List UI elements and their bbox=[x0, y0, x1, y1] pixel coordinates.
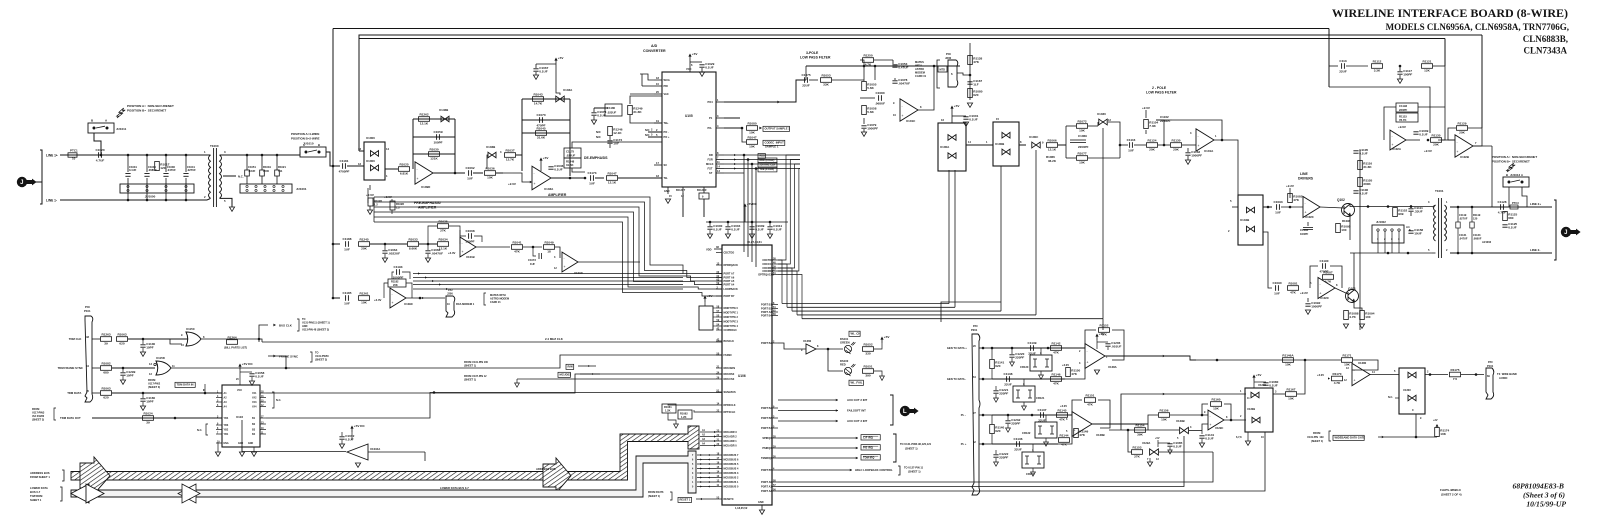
capacitor C1162 bbox=[1145, 130, 1147, 134]
svg-text:U104B: U104B bbox=[1240, 218, 1250, 222]
svg-text:N/C: N/C bbox=[596, 135, 601, 139]
MTD box bbox=[938, 66, 947, 72]
svg-text:22UF: 22UF bbox=[1339, 69, 1347, 73]
svg-text:+5V: +5V bbox=[707, 294, 714, 298]
label TDM DATA IN bbox=[175, 382, 195, 387]
svg-text:U103A: U103A bbox=[563, 88, 573, 92]
pin 5 A3 U116 bbox=[216, 401, 222, 403]
address bus arrow left bbox=[80, 457, 110, 494]
svg-text:CLN7343A: CLN7343A bbox=[1523, 46, 1567, 56]
capacitor C1117 bbox=[1397, 71, 1402, 73]
svg-text:U106: U106 bbox=[738, 374, 746, 378]
power U130B bbox=[1253, 377, 1255, 381]
svg-text:15K: 15K bbox=[1213, 407, 1219, 411]
pin 66 PORT B4 U106 bbox=[772, 315, 778, 317]
label RESET bbox=[678, 497, 692, 502]
svg-text:0.1UF: 0.1UF bbox=[713, 228, 722, 232]
ground U105 bbox=[665, 199, 670, 203]
wire r1061 gnd bbox=[668, 413, 676, 424]
svg-text:MCUADR 0: MCUADR 0 bbox=[724, 445, 738, 448]
component C1051 bbox=[246, 155, 248, 170]
wire bundle staircase bbox=[374, 197, 722, 274]
svg-text:10K: 10K bbox=[1285, 363, 1291, 367]
resistor R1144 bbox=[1059, 438, 1070, 443]
wire PO- out bbox=[724, 127, 742, 129]
svg-text:JU1013: JU1013 bbox=[1510, 173, 1521, 177]
svg-text:(SHEET 1): (SHEET 1) bbox=[908, 470, 921, 474]
svg-text:0.1UF: 0.1UF bbox=[969, 118, 978, 122]
svg-text:TX WIDE BAND: TX WIDE BAND bbox=[1497, 372, 1517, 376]
svg-text:47K: 47K bbox=[1053, 351, 1059, 355]
net C/F IRQ bbox=[778, 437, 858, 439]
svg-text:U130C: U130C bbox=[1403, 388, 1411, 392]
svg-text:7.5: 7.5 bbox=[1453, 377, 1458, 381]
label WIDEBAND DATA GATE bbox=[1333, 435, 1364, 440]
pin 1 PO4 U105 bbox=[716, 101, 724, 103]
resistor R1028 bbox=[368, 198, 373, 206]
switch bbox=[1408, 372, 1416, 378]
svg-text:-: - bbox=[462, 241, 463, 245]
wire to U105 bbox=[618, 177, 662, 179]
wire y394 from U128B bbox=[1121, 394, 1246, 430]
diode bridge CR133 bbox=[1022, 452, 1044, 468]
svg-text:ASTRO: ASTRO bbox=[915, 67, 924, 71]
svg-text:POSITION B= SECURENET: POSITION B= SECURENET bbox=[1492, 160, 1530, 164]
ground U116 a bbox=[239, 452, 244, 456]
svg-text:1500: 1500 bbox=[263, 169, 269, 173]
svg-text:10K: 10K bbox=[1161, 418, 1167, 422]
svg-text:1UF: 1UF bbox=[589, 181, 595, 185]
off-sheet connector J bbox=[1561, 227, 1571, 237]
capacitor C1074 bbox=[591, 112, 596, 114]
svg-text:TO U127-PIN 11: TO U127-PIN 11 bbox=[904, 466, 924, 470]
svg-text:0.1UF: 0.1UF bbox=[129, 168, 137, 172]
connector P/O P101 right bbox=[1486, 368, 1494, 399]
feedback R1152 bbox=[1085, 330, 1096, 348]
address bus pin arrows bbox=[700, 431, 716, 433]
capacitor C1185 bbox=[345, 295, 347, 301]
capacitor C1070 bbox=[539, 117, 541, 123]
capacitor C1128 bbox=[1500, 204, 1502, 210]
wire long y360 bbox=[1105, 355, 1121, 357]
capacitor C1193 box bbox=[1396, 103, 1418, 112]
wire DPTXCLK loop bbox=[694, 410, 716, 412]
svg-text:FRAME SYNC: FRAME SYNC bbox=[279, 355, 299, 359]
svg-text:PDI: PDI bbox=[664, 84, 669, 88]
capacitor C1080 bbox=[878, 95, 880, 101]
ground C1009 bbox=[749, 234, 754, 238]
jumper JU1013 bbox=[1503, 177, 1529, 187]
resistor R1152 bbox=[1099, 328, 1110, 333]
wire fan drop 2 bbox=[747, 160, 749, 258]
wire R1156 branch bbox=[1148, 415, 1158, 430]
connector P/O P201 bbox=[972, 334, 980, 495]
wire amp out bbox=[551, 177, 585, 179]
svg-text:MODTYPE 0: MODTYPE 0 bbox=[724, 307, 739, 310]
pin 50 FSXNC U106 bbox=[716, 354, 722, 356]
capacitor C1034 bbox=[146, 155, 148, 172]
pin 8 YB2 U116 bbox=[216, 429, 222, 431]
svg-text:0.1UF: 0.1UF bbox=[1359, 192, 1368, 196]
capacitor C1036 bbox=[165, 155, 167, 172]
capacitor C1080 bbox=[1263, 382, 1268, 384]
svg-text:PO -: PO - bbox=[664, 130, 669, 134]
wire opamp out bbox=[918, 66, 934, 110]
svg-text:620: 620 bbox=[119, 342, 124, 346]
svg-text:J200: J200 bbox=[447, 292, 453, 296]
svg-text:CODEC INPUT: CODEC INPUT bbox=[765, 141, 785, 145]
resistor R1024 bbox=[143, 416, 154, 421]
op-amp U102B bbox=[1455, 135, 1473, 157]
wire U128B out bbox=[1109, 429, 1179, 431]
net P/S IRQ bbox=[778, 447, 858, 449]
svg-text:-: - bbox=[417, 167, 418, 171]
switch U103B bbox=[488, 152, 496, 158]
svg-text:27K: 27K bbox=[1134, 455, 1140, 459]
selection cursor arrow bbox=[117, 108, 126, 118]
svg-text:47K: 47K bbox=[1079, 433, 1085, 437]
svg-text:MODELS CLN6956A, CLN6958A, TRN: MODELS CLN6956A, CLN6958A, TRN7706G, bbox=[1386, 22, 1569, 32]
component R1119 bbox=[1471, 207, 1473, 222]
capacitor C1299 bbox=[120, 372, 125, 374]
svg-text:YB3: YB3 bbox=[224, 424, 229, 427]
svg-text:39: 39 bbox=[104, 342, 108, 346]
svg-text:.0047UF: .0047UF bbox=[431, 252, 443, 256]
resistor R1175 bbox=[1450, 372, 1461, 377]
or-gate U115D bbox=[156, 361, 171, 375]
svg-text:20K: 20K bbox=[393, 283, 398, 287]
svg-text:R1047: R1047 bbox=[747, 136, 756, 140]
svg-text:PORT B6: PORT B6 bbox=[761, 417, 772, 420]
svg-text:R1154: R1154 bbox=[1136, 424, 1145, 428]
svg-text:10K: 10K bbox=[1079, 129, 1085, 133]
svg-text:1UF: 1UF bbox=[344, 247, 350, 251]
switch bbox=[1002, 132, 1010, 138]
svg-text:LOWER DATA: LOWER DATA bbox=[30, 486, 48, 490]
svg-text:BCLK R: BCLK R bbox=[697, 189, 707, 192]
svg-text:-: - bbox=[1087, 349, 1088, 353]
svg-text:120: 120 bbox=[1473, 217, 1478, 221]
diode bridge CR121 bbox=[1013, 386, 1035, 402]
net AUX OUT 3 INT bbox=[778, 420, 838, 422]
svg-text:CDCTDO: CDCTDO bbox=[724, 252, 735, 255]
svg-text:SPIRQX: SPIRQX bbox=[762, 437, 772, 440]
wire 2.4mhz bbox=[262, 341, 722, 343]
capacitor C1232 bbox=[1007, 415, 1009, 420]
wire y360 row bbox=[1196, 359, 1341, 361]
wire u103b drop bbox=[487, 155, 488, 169]
analog switch U100A bbox=[938, 123, 966, 171]
wire U130B gnd bbox=[1247, 432, 1249, 441]
wire down bbox=[424, 452, 426, 461]
svg-text:R1261: R1261 bbox=[359, 292, 368, 296]
svg-text:1UF: 1UF bbox=[530, 262, 535, 266]
svg-text:14: 14 bbox=[386, 147, 390, 151]
pin 10 PDI U105 bbox=[654, 85, 662, 87]
capacitor C1222 bbox=[993, 454, 998, 456]
svg-text:3-POLE: 3-POLE bbox=[806, 51, 819, 55]
wire bbox=[128, 338, 188, 340]
svg-text:U131-PIN 109: U131-PIN 109 bbox=[1307, 436, 1324, 439]
wire tdm data in bbox=[204, 384, 206, 393]
svg-text:-: - bbox=[902, 104, 903, 108]
svg-text:GND: GND bbox=[238, 443, 243, 445]
svg-text:FROM R1376: FROM R1376 bbox=[648, 491, 664, 494]
svg-text:PORT A2: PORT A2 bbox=[761, 490, 772, 493]
pin 18 TB- U105 bbox=[654, 177, 662, 179]
svg-text:22UF: 22UF bbox=[802, 83, 810, 87]
address bus arrow mid bbox=[543, 458, 571, 493]
lower bus mid break arrow bbox=[178, 484, 196, 503]
svg-text:YB1: YB1 bbox=[224, 433, 229, 436]
wire j200 to column bbox=[957, 73, 970, 75]
wire row to drop bbox=[1433, 65, 1445, 67]
svg-text:47K: 47K bbox=[514, 250, 520, 254]
resistor R1121 bbox=[1422, 64, 1433, 69]
capacitor C1041 bbox=[185, 155, 187, 172]
svg-text:31.6K: 31.6K bbox=[566, 163, 573, 167]
resistor R1030 bbox=[429, 152, 440, 157]
pin 12 YA4 U116 bbox=[260, 406, 266, 408]
wire to opamp- bbox=[1065, 362, 1085, 379]
wire jumper to line bbox=[94, 133, 101, 150]
resistor R1141 bbox=[990, 360, 995, 369]
svg-text:620: 620 bbox=[103, 396, 108, 400]
capacitor C1085 bbox=[1158, 442, 1170, 444]
svg-text:YB4: YB4 bbox=[224, 417, 229, 420]
wire right loop verticals up to mux bbox=[948, 170, 950, 304]
svg-text:+: + bbox=[902, 114, 904, 118]
pin 9 PORT B# U106 bbox=[772, 407, 778, 409]
pin 5 PO + U105 bbox=[654, 136, 662, 138]
svg-text:R1121: R1121 bbox=[1423, 60, 1432, 64]
svg-text:0.1UF: 0.1UF bbox=[1205, 437, 1214, 441]
svg-text:4.7K: 4.7K bbox=[865, 63, 872, 67]
wire line to JU1010 bbox=[299, 152, 301, 155]
svg-text:JU1000: JU1000 bbox=[145, 195, 156, 199]
switch bbox=[1002, 149, 1010, 155]
wire bbox=[523, 246, 542, 248]
svg-text:R1167: R1167 bbox=[1287, 388, 1296, 392]
svg-text:.001UF: .001UF bbox=[1111, 345, 1121, 349]
svg-text:7.3K: 7.3K bbox=[1149, 124, 1156, 128]
svg-text:FST: FST bbox=[708, 167, 713, 171]
wire bbox=[1346, 65, 1368, 67]
svg-text:1UF: 1UF bbox=[613, 142, 619, 146]
svg-text:U102B: U102B bbox=[1460, 155, 1469, 159]
svg-text:+: + bbox=[462, 250, 464, 254]
svg-text:-: - bbox=[1198, 134, 1199, 138]
svg-text:R1151: R1151 bbox=[1086, 394, 1095, 398]
svg-text:U1000: U1000 bbox=[366, 159, 375, 163]
svg-text:47K: 47K bbox=[1071, 372, 1077, 376]
wire +5v drop bbox=[951, 116, 953, 123]
capacitor C1093 bbox=[1276, 204, 1278, 210]
svg-text:TO U121-PINS 96,120,121: TO U121-PINS 96,120,121 bbox=[900, 442, 932, 446]
pin 3 YB4 U116 bbox=[216, 417, 222, 419]
svg-text:C1136: C1136 bbox=[1014, 437, 1023, 441]
data bus pin arrows bbox=[697, 454, 716, 456]
wire opamp out bbox=[1370, 374, 1399, 376]
svg-text:R1066: R1066 bbox=[1047, 139, 1056, 143]
svg-text:10/15/99-UP: 10/15/99-UP bbox=[1526, 500, 1566, 509]
svg-text:SAMPLE 1: SAMPLE 1 bbox=[765, 145, 779, 149]
resistor R1045 bbox=[536, 131, 547, 136]
capacitor C1222 bbox=[995, 450, 997, 454]
wire LINE 1+ bracket bbox=[40, 150, 42, 204]
svg-text:FSR: FSR bbox=[708, 158, 713, 162]
svg-text:R1171: R1171 bbox=[1343, 354, 1352, 358]
resistor R1170 bbox=[1332, 376, 1343, 381]
switch bbox=[1247, 207, 1255, 213]
svg-text:R1170: R1170 bbox=[1333, 372, 1342, 376]
ground C1130 bbox=[140, 352, 145, 356]
svg-text:DS100: DS100 bbox=[840, 359, 849, 363]
ground C1066 bbox=[425, 258, 430, 262]
capacitor C1058 bbox=[240, 371, 252, 373]
svg-text:47K: 47K bbox=[1293, 198, 1299, 202]
svg-text:GEN TX DATA -: GEN TX DATA - bbox=[947, 377, 966, 381]
capacitor C1206 bbox=[1105, 343, 1110, 345]
resistor R1087 bbox=[1323, 275, 1334, 280]
svg-text:CDCTDE: CDCTDE bbox=[762, 259, 773, 262]
svg-text:ENA: ENA bbox=[224, 442, 229, 445]
svg-text:PO-: PO- bbox=[708, 126, 713, 130]
capacitor C1181 bbox=[342, 163, 344, 169]
svg-text:R1035: R1035 bbox=[438, 220, 447, 224]
wire U128B out bbox=[1092, 423, 1148, 425]
pin 42 BUSCLK U106 bbox=[716, 340, 722, 342]
pin 59 PORT A4 U106 bbox=[716, 284, 722, 286]
svg-text:PORT A1: PORT A1 bbox=[761, 486, 772, 489]
wire R1047 tap bbox=[742, 128, 746, 142]
net TDM IRQ bbox=[778, 457, 858, 459]
capacitor C1163 bbox=[1187, 148, 1189, 152]
switch box U130C bbox=[1399, 368, 1425, 414]
svg-text:MODTYPE 1: MODTYPE 1 bbox=[724, 312, 739, 315]
capacitor C1232 bbox=[1005, 420, 1010, 422]
ground C1163 bbox=[1185, 160, 1190, 164]
wire bbox=[419, 243, 437, 245]
wire JU1013 drop bbox=[1508, 187, 1510, 207]
svg-text:T1000: T1000 bbox=[210, 144, 219, 148]
wire U100A-U100B bbox=[966, 144, 993, 146]
wire to DS100 bbox=[828, 349, 843, 371]
resistor pack MODTYPE bbox=[699, 306, 713, 330]
pin 59 MODTYPE 3 U106 bbox=[716, 321, 722, 323]
svg-text:680: 680 bbox=[1508, 216, 1513, 220]
svg-text:10K: 10K bbox=[361, 301, 367, 305]
nc stub bbox=[1395, 397, 1399, 399]
wire LINE 1+ bbox=[60, 154, 207, 156]
svg-text:J: J bbox=[20, 180, 23, 186]
svg-text:P/O: P/O bbox=[448, 288, 452, 292]
svg-text:C1121: C1121 bbox=[1459, 233, 1467, 237]
ground R1080 bbox=[967, 103, 972, 107]
wire R1249 bbox=[630, 96, 662, 104]
svg-text:LINE 1+: LINE 1+ bbox=[46, 154, 58, 158]
svg-text:RXA MODEM 1: RXA MODEM 1 bbox=[456, 302, 475, 306]
svg-text:47K: 47K bbox=[1059, 418, 1065, 422]
svg-text:100PF: 100PF bbox=[1403, 73, 1412, 77]
capacitor C1220 bbox=[1011, 348, 1013, 354]
wire r1174 to row bbox=[1436, 436, 1438, 437]
svg-text:10UF: 10UF bbox=[1414, 232, 1422, 236]
svg-text:C1173: C1173 bbox=[588, 171, 597, 175]
analog switch U100B bbox=[993, 122, 1019, 166]
capacitor C1073 bbox=[533, 247, 536, 256]
svg-text:R1144: R1144 bbox=[1060, 434, 1069, 438]
svg-text:1UF: 1UF bbox=[1274, 291, 1280, 295]
svg-text:1.2K: 1.2K bbox=[665, 409, 671, 413]
wire up to opamp in10 bbox=[1202, 424, 1208, 431]
svg-text:+2.2V: +2.2V bbox=[1286, 184, 1294, 188]
wire to opamp+ bbox=[1058, 430, 1072, 444]
wire gate row bbox=[1378, 436, 1437, 438]
svg-text:+9.6V: +9.6V bbox=[1398, 125, 1406, 129]
svg-text:4700PF: 4700PF bbox=[339, 169, 350, 173]
svg-text:(SHEET 1): (SHEET 1) bbox=[648, 495, 660, 498]
svg-text:C1190: C1190 bbox=[1320, 259, 1329, 263]
pin 7 FSR U105 bbox=[716, 159, 724, 161]
wire fan drop 1 bbox=[743, 155, 745, 252]
op-amp U109D bbox=[415, 162, 433, 184]
svg-text:AMPLIFIER: AMPLIFIER bbox=[548, 193, 567, 197]
wire rail C right drop bbox=[1444, 39, 1446, 67]
wire secondary bottom bbox=[223, 198, 232, 207]
pin 57 PORT A1 U106 bbox=[772, 486, 778, 488]
wire bbox=[1142, 144, 1146, 146]
pin 61 PORT B3 U106 bbox=[772, 308, 778, 310]
pin 17 SC U105 bbox=[654, 164, 662, 166]
svg-text:FSXNC: FSXNC bbox=[724, 354, 733, 357]
svg-text:R1049: R1049 bbox=[544, 241, 553, 245]
capacitor C1125 bbox=[1502, 224, 1507, 226]
capacitor C1075 bbox=[804, 77, 806, 83]
wire MCUCSX bbox=[530, 378, 716, 380]
wire CR132 stub bbox=[1045, 415, 1047, 422]
svg-text:R1077: R1077 bbox=[1077, 152, 1086, 156]
svg-text:PORT A7: PORT A7 bbox=[724, 273, 735, 276]
wire fsync long bbox=[286, 355, 722, 368]
svg-text:C1073: C1073 bbox=[528, 258, 536, 262]
svg-text:PTC1: PTC1 bbox=[70, 149, 78, 153]
svg-text:18: 18 bbox=[547, 250, 551, 254]
svg-text:0.1UF: 0.1UF bbox=[1173, 445, 1182, 449]
svg-text:U101A: U101A bbox=[1204, 149, 1214, 153]
svg-text:MCUCSX: MCUCSX bbox=[724, 378, 735, 381]
off-sheet connector J bbox=[17, 177, 27, 187]
resistor R1025 bbox=[399, 167, 410, 172]
feedback loop wires U103A bbox=[521, 99, 523, 171]
svg-text:R1262: R1262 bbox=[419, 113, 428, 117]
label WL_CH bbox=[849, 331, 860, 336]
svg-text:+5V DC: +5V DC bbox=[242, 362, 254, 366]
feedback loop bbox=[1156, 120, 1164, 145]
op-amp U1280 bbox=[1352, 363, 1370, 385]
ground U129A bbox=[1149, 458, 1151, 462]
svg-text:N/C: N/C bbox=[596, 130, 601, 134]
svg-text:R1019: R1019 bbox=[263, 165, 271, 169]
svg-text:+5V DC: +5V DC bbox=[354, 424, 366, 428]
capacitor C1009 0.1UF bbox=[751, 222, 753, 226]
capacitor C1190 feedback bbox=[1310, 266, 1318, 288]
svg-text:POSITION A= NON-SECURENET: POSITION A= NON-SECURENET bbox=[1492, 155, 1537, 159]
pin 18 YA1 U116 bbox=[260, 392, 266, 394]
pin 4 PORT B5 U106 bbox=[772, 469, 778, 471]
svg-text:10K: 10K bbox=[487, 176, 493, 180]
wire opamp-Q102 bbox=[1320, 207, 1344, 208]
